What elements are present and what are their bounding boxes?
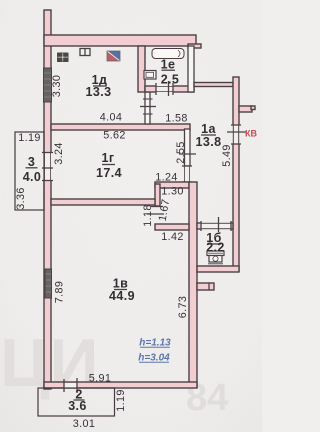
svg-text:4.0: 4.0 — [23, 170, 42, 184]
svg-text:1.19: 1.19 — [18, 132, 40, 144]
right stub wall — [239, 106, 255, 112]
svg-text:5.49: 5.49 — [221, 144, 233, 166]
window 7.89 in left wall — [45, 269, 52, 298]
wall 1.24 — [155, 182, 189, 188]
bathroom left wall — [138, 46, 145, 92]
svg-text:13.8: 13.8 — [196, 135, 222, 149]
bathroom bottom wall — [145, 86, 194, 92]
room label 3 — [23, 155, 42, 184]
right vertical wall 1б/1в — [189, 182, 197, 387]
tick 2.55 — [179, 153, 196, 155]
top wall end nub — [188, 44, 201, 48]
bathroom door leaf — [168, 81, 170, 96]
room label 1е — [161, 58, 180, 87]
door gap 1в to hall — [147, 207, 164, 215]
svg-text:1.42: 1.42 — [161, 231, 183, 243]
1а door gap — [182, 166, 192, 182]
svg-text:5.91: 5.91 — [89, 373, 111, 385]
1б top wall — [197, 223, 233, 229]
wall between 1д and 1г — [51, 124, 190, 130]
svg-text:3.01: 3.01 — [73, 418, 95, 430]
svg-text:3.30: 3.30 — [51, 75, 63, 97]
svg-text:1г: 1г — [102, 151, 115, 165]
balcony 2 box — [38, 388, 115, 416]
svg-text:5.62: 5.62 — [103, 130, 125, 142]
room label 1б — [206, 231, 225, 255]
1б door gap — [201, 217, 231, 232]
1а top thin wall — [194, 83, 233, 87]
room label 2 — [68, 388, 87, 414]
svg-text:3.36: 3.36 — [15, 187, 27, 209]
svg-text:3.6: 3.6 — [68, 399, 87, 413]
room label 1г — [96, 151, 122, 180]
bathroom door gap — [156, 83, 173, 95]
svg-text:1.58: 1.58 — [165, 113, 187, 125]
wall 1.42 — [155, 224, 189, 230]
svg-text:7.89: 7.89 — [54, 281, 66, 303]
left outer wall — [44, 10, 51, 389]
watermark letters — [0, 325, 228, 419]
fridge icon — [107, 51, 120, 61]
svg-text:4.04: 4.04 — [100, 112, 122, 124]
svg-text:1а: 1а — [201, 122, 216, 136]
svg-text:1.30: 1.30 — [161, 186, 183, 198]
hall wall x155 — [155, 184, 160, 206]
right wall window — [231, 125, 241, 144]
window 3.30 in left wall — [44, 68, 52, 102]
bath sink — [144, 71, 156, 80]
label h=1.13 blue — [139, 338, 171, 349]
svg-text:КВ: КВ — [245, 129, 257, 139]
tick 1.58 niche — [140, 106, 156, 108]
svg-text:2.2: 2.2 — [206, 241, 225, 255]
balcony 2 door — [64, 378, 77, 393]
svg-text:3.24: 3.24 — [53, 142, 65, 164]
1г bottom wall — [51, 199, 155, 205]
svg-text:1.19: 1.19 — [115, 389, 127, 411]
svg-text:44.9: 44.9 — [109, 289, 135, 303]
niche partition — [145, 92, 150, 124]
room label 1в — [109, 277, 135, 304]
kitchen stove icon — [57, 53, 69, 63]
svg-text:2.5: 2.5 — [161, 73, 180, 87]
bottom outer wall — [44, 382, 197, 388]
balcony 3 box — [15, 132, 44, 210]
svg-text:13.3: 13.3 — [86, 85, 112, 99]
toilet — [207, 251, 224, 266]
balcony door gap in left wall — [42, 153, 53, 181]
right outer wall — [233, 77, 239, 271]
kitchen sink icon — [80, 49, 90, 56]
room label 1а — [196, 122, 222, 149]
label h=3.04 blue — [138, 353, 170, 364]
svg-text:17.4: 17.4 — [96, 166, 122, 180]
svg-text:2.55: 2.55 — [175, 141, 187, 163]
room label 1д — [86, 73, 112, 99]
svg-text:1.18: 1.18 — [142, 204, 154, 226]
svg-text:1е: 1е — [161, 58, 176, 72]
top outer wall — [44, 35, 196, 46]
svg-text:3: 3 — [28, 155, 35, 169]
svg-text:6.73: 6.73 — [177, 296, 189, 318]
1б bottom wall — [197, 266, 239, 272]
bathtub — [152, 49, 184, 59]
bathroom right wall — [188, 46, 194, 92]
dimension tick to КВ — [227, 131, 246, 133]
1а left wall — [185, 129, 191, 166]
step wall below 1б — [197, 283, 214, 290]
svg-text:1.24: 1.24 — [155, 172, 177, 184]
